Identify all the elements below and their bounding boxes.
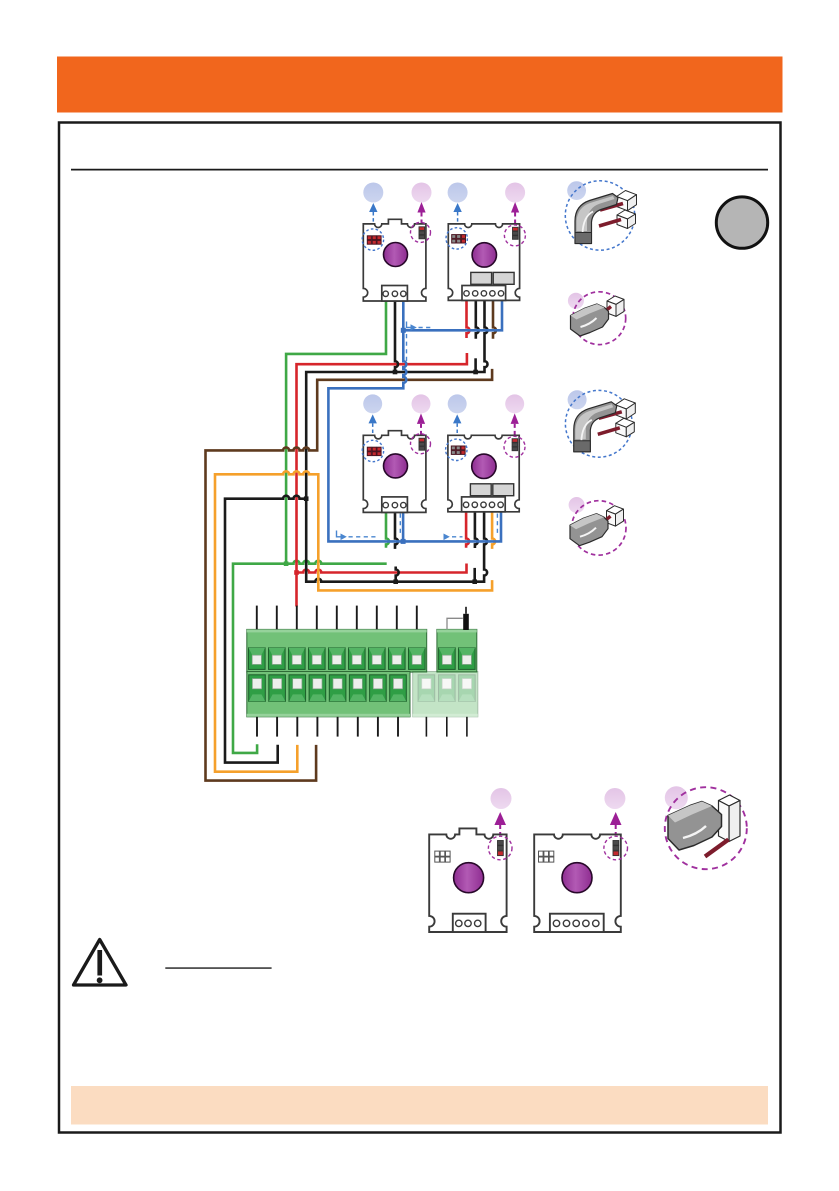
grey circle marker [716, 197, 767, 248]
warning triangle [74, 940, 127, 986]
arrow magenta M4 [511, 413, 519, 439]
connector J2 module M6 [613, 841, 619, 856]
indicator dot pink M5 [491, 788, 512, 809]
highlight circle magenta M4 [504, 436, 525, 457]
connector J1 module M4 [451, 446, 465, 454]
highlight circle magenta M2 [504, 225, 525, 246]
wire blue module3 down [402, 512, 405, 542]
wire black left bus to bottom terminal pin2 [225, 496, 306, 763]
connector J1 module M5 [435, 851, 450, 862]
arrow magenta M2 [511, 202, 519, 228]
black junction [393, 370, 398, 375]
peach footer bar [71, 1086, 768, 1125]
indicator dot blue M1 [363, 183, 383, 203]
connector J2 module M2 [513, 227, 519, 239]
terminal block module M4 [462, 497, 506, 512]
relay box A module M2 [471, 272, 492, 284]
indicator dot pink M3 [412, 394, 431, 413]
blue junction [401, 328, 406, 333]
wire black module1 down [395, 300, 398, 372]
icon 4 connector drawing [570, 506, 624, 546]
highlight circle blue M1 [362, 229, 383, 250]
wire orange module4 stub [492, 511, 495, 549]
wire brown module2 stub [493, 300, 496, 339]
highlight circle blue M3 [362, 440, 383, 461]
red junction [294, 570, 299, 575]
highlight circle magenta M1 [411, 222, 431, 242]
dashed guide arrowhead module1 [411, 324, 417, 331]
black junction [472, 579, 477, 584]
terminal block module M5 [453, 914, 486, 932]
black junction [473, 370, 478, 375]
green junction [284, 561, 289, 566]
highlight circle blue M4 [446, 439, 467, 460]
black junction [304, 496, 309, 501]
arrow blue M3 [369, 414, 377, 442]
indicator dot pink M6 [604, 788, 625, 809]
wire black module2 pin2 lower stub [474, 358, 477, 372]
indicator dot blue M2 [448, 183, 468, 203]
highlight circle blue M2 [446, 228, 467, 249]
module M2 body [448, 224, 519, 301]
connector J2 module M1 [419, 227, 425, 239]
wire red module2 stub [467, 300, 470, 339]
dashed guide left of module3 [337, 514, 401, 537]
arrow magenta M3 [417, 413, 425, 439]
wire green bus to bottom terminal pin1 [233, 561, 387, 753]
wire black bus module2 to module4 [306, 300, 487, 582]
relay box B module M2 [493, 272, 514, 284]
black junction [393, 579, 398, 584]
knob module M5 rotary knob [454, 863, 484, 893]
module M6 body [534, 834, 621, 932]
terminal block module M1 [382, 286, 408, 302]
dashed guide arrowhead module4 [444, 534, 450, 541]
arrow magenta M1 [417, 202, 425, 228]
icon 5 connector drawing [668, 795, 740, 857]
header orange banner [57, 57, 783, 113]
arrow magenta M5 [494, 812, 506, 835]
connector icon callout 3 (blue) [568, 390, 587, 409]
arrow blue M4 [453, 414, 461, 442]
wire black module4 pin2 stub [475, 511, 478, 548]
connector icon callout 2 (magenta) [568, 293, 584, 309]
wire black module3 lower stub [396, 567, 399, 582]
indicator dot pink M2 [505, 183, 525, 203]
module M1 body [363, 219, 426, 301]
connector icon callout 5 (magenta large) [665, 786, 688, 809]
arrow blue M1 [369, 203, 377, 231]
indicator dot pink M4 [505, 394, 524, 413]
icon 1 connector drawing [575, 191, 637, 244]
caption rule [165, 967, 271, 969]
connector icon callout 4 (magenta) [569, 497, 585, 513]
relay box B module M4 [493, 484, 514, 496]
terminal block module M2 [462, 286, 506, 301]
connector J2 module M4 [512, 439, 518, 451]
highlight circle magenta M6 [604, 836, 628, 860]
wire orange module4 to bottom terminal pin3 [215, 471, 492, 771]
highlight circle magenta M3 [411, 434, 431, 454]
dashed guide arrowhead module3 [341, 534, 347, 541]
wire blue module1 to module2 [403, 300, 502, 331]
jumper wire on TB2 [447, 618, 463, 629]
arrow magenta M6 [610, 812, 622, 835]
terminal block module M6 [550, 914, 604, 932]
wire red module4 stub [466, 511, 469, 548]
terminal block TB4 (3-position, faded) [413, 672, 478, 717]
wire black module2 pin2 stub [476, 300, 479, 339]
wire green module1 to left bus [286, 300, 386, 564]
module M3 body [363, 431, 426, 513]
plug pin on TB2 [463, 607, 469, 630]
wire red module2 to top terminal pin3 [297, 353, 467, 607]
connector J1 module M2 [452, 235, 466, 243]
wire green module3 stub [386, 512, 389, 548]
icon 2 connector drawing [571, 296, 625, 336]
connector J2 module M5 [498, 841, 504, 856]
wire red branch to module4 [297, 564, 467, 573]
knob module M6 rotary knob [562, 863, 592, 893]
indicator dot blue M3 [363, 394, 382, 413]
module M5 body [429, 828, 506, 932]
knob module M3 rotary knob [384, 454, 408, 478]
connector J1 module M3 [367, 447, 381, 455]
knob module M2 rotary knob [472, 243, 496, 267]
wire brown module2 to bottom terminal pin4 [206, 369, 493, 781]
indicator dot pink M1 [412, 183, 432, 203]
TB1 pins [257, 606, 417, 630]
dashed guide left of module4 [452, 514, 497, 537]
module M4 body [448, 435, 519, 512]
arrow blue M2 [453, 203, 461, 231]
icon 3 connector drawing [574, 399, 636, 452]
top rule [71, 169, 768, 171]
connector icon callout 1 (blue) [567, 181, 586, 200]
relay box A module M4 [470, 484, 491, 496]
terminal block TB2 (2-position) [437, 629, 477, 672]
connector J1 module M1 [367, 236, 381, 244]
wire black module3 stub [395, 512, 398, 549]
connector J1 module M6 [539, 851, 554, 862]
knob module M4 rotary knob [472, 454, 496, 478]
page border frame [59, 123, 781, 1133]
terminal block TB3 (8-position) [247, 672, 410, 717]
TB3 pins [257, 717, 398, 737]
wire black module4 pin2 lower stub [473, 568, 476, 582]
terminal block module M3 [382, 497, 408, 513]
TB4 pins [426, 717, 467, 737]
wire blue bus to module4 [328, 330, 501, 541]
connector J2 module M3 [419, 438, 425, 450]
highlight circle magenta M5 [488, 836, 512, 860]
terminal block TB1 (9-position) [247, 629, 427, 672]
knob module M1 rotary knob [384, 243, 408, 267]
indicator dot blue M4 [448, 394, 467, 413]
blue junction [401, 539, 406, 544]
dashed guide at module1 junction [407, 322, 432, 363]
